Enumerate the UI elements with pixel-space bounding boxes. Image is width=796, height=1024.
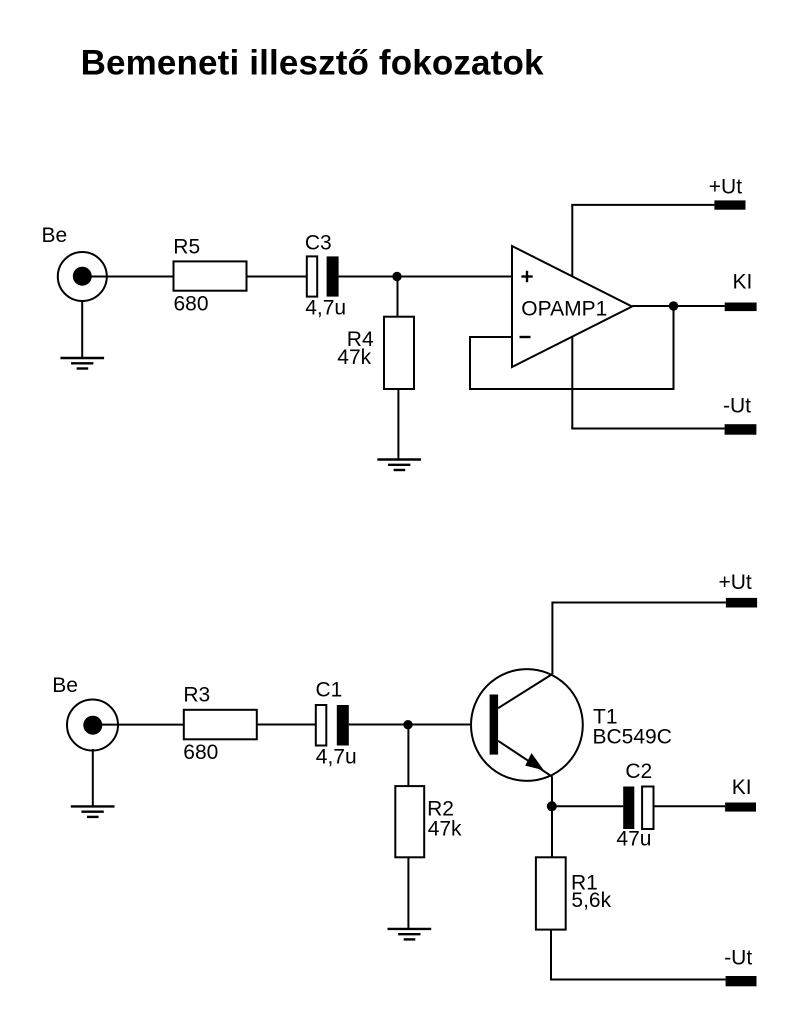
svg-text:Be: Be: [52, 674, 78, 697]
wire: emitter down to R1: [551, 777, 553, 858]
wire: emitter node to C2: [552, 805, 623, 807]
svg-text:5,6k: 5,6k: [571, 889, 611, 912]
resistor R4: [384, 317, 414, 389]
wire: node to R2: [407, 725, 409, 786]
transistor T1 base bar: [490, 695, 499, 755]
terminal bar KI (top): [725, 303, 757, 312]
resistor R3: [184, 710, 257, 740]
wire: C2 to KI (bottom): [654, 805, 726, 807]
RCA jack J1 (top input connector): [58, 252, 107, 301]
transistor T1 emitter diagonal: [498, 741, 552, 777]
svg-text:OPAMP1: OPAMP1: [521, 298, 607, 321]
ground (bottom input jack): [71, 806, 115, 817]
wire: jack ground stem: [81, 300, 83, 358]
ground (R4): [377, 460, 421, 471]
terminal bar +Ut (bottom): [726, 598, 757, 608]
wire: C3 to op-amp + input: [339, 276, 512, 278]
junction node (top, R4 tap): [392, 272, 401, 281]
wire: op-amp output to KI: [632, 305, 725, 307]
wire: C1 to T1 base: [349, 724, 490, 726]
terminal bar KI (bottom): [725, 803, 756, 812]
svg-text:4,7u: 4,7u: [305, 297, 346, 320]
wire: jack ground stem (bottom): [92, 749, 94, 806]
transistor T1 collector diagonal: [498, 674, 552, 708]
svg-text:BC549C: BC549C: [593, 726, 672, 749]
svg-text:Be: Be: [42, 224, 68, 247]
svg-text:C2: C2: [625, 760, 652, 783]
svg-text:47u: 47u: [616, 828, 651, 851]
ground (top input jack): [60, 358, 104, 369]
resistor R5: [174, 261, 247, 290]
svg-text:47k: 47k: [428, 818, 462, 841]
wire: R3 to C1: [257, 724, 316, 726]
svg-text:C1: C1: [316, 679, 343, 702]
svg-text:4,7u: 4,7u: [316, 746, 357, 769]
resistor R2: [395, 786, 424, 857]
wire: R5 to C3: [247, 276, 307, 278]
capacitor C3: [307, 256, 339, 296]
capacitor C2: [623, 787, 653, 830]
feedback wire: output to - input: [470, 306, 674, 389]
svg-text:Bemeneti illesztő fokozatok: Bemeneti illesztő fokozatok: [81, 44, 544, 83]
capacitor C1: [316, 705, 349, 746]
svg-text:+Ut: +Ut: [709, 176, 742, 199]
wire: node to R4: [397, 277, 399, 318]
svg-text:C3: C3: [305, 232, 332, 255]
svg-text:-Ut: -Ut: [723, 395, 751, 418]
op-amp - input marking: [520, 336, 531, 338]
wire: R1 to -Ut corner: [551, 930, 726, 980]
terminal bar -Ut (top): [725, 424, 757, 435]
svg-text:680: 680: [183, 741, 218, 764]
svg-text:+Ut: +Ut: [719, 571, 752, 594]
wire: R4 to ground: [397, 389, 399, 460]
junction node (emitter): [547, 801, 557, 811]
RCA jack J2 (bottom input connector): [67, 700, 118, 751]
wire: jack to R3: [101, 724, 184, 726]
wire: supply rail vertical through op-amp (+Ut to -Ut): [571, 205, 573, 429]
svg-text:KI: KI: [732, 776, 752, 799]
transistor T1 circle: [471, 669, 583, 781]
wire: jack to R5: [91, 276, 174, 278]
junction node (op-amp output): [669, 301, 678, 310]
wire: collector to +Ut corner: [552, 603, 726, 675]
resistor R1: [536, 857, 566, 929]
wire: +Ut horizontal (top): [571, 204, 714, 206]
svg-text:-Ut: -Ut: [724, 947, 752, 970]
wire: R2 to ground: [407, 857, 409, 929]
op-amp U1 OPAMP1 triangle: [512, 246, 632, 367]
svg-text:47k: 47k: [337, 346, 371, 369]
transistor T1 emitter arrow: [525, 753, 544, 770]
junction node (bottom, R2 tap): [403, 720, 412, 729]
svg-text:680: 680: [174, 293, 209, 316]
ground (R2): [388, 929, 432, 940]
terminal bar -Ut (bottom): [726, 976, 757, 986]
terminal bar +Ut (top): [714, 200, 745, 209]
svg-text:R5: R5: [173, 236, 200, 259]
wire: -Ut horizontal (top): [571, 428, 724, 430]
svg-text:R3: R3: [183, 684, 210, 707]
svg-text:KI: KI: [733, 271, 753, 294]
op-amp + input marking: [521, 271, 532, 282]
